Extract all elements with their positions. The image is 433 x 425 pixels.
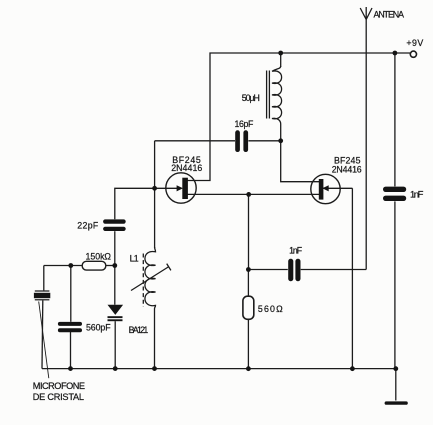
svg-text:560Ω: 560Ω (258, 304, 283, 314)
svg-text:MICROFONE: MICROFONE (33, 381, 85, 391)
svg-text:22pF: 22pF (77, 221, 99, 231)
svg-text:BA121: BA121 (129, 325, 149, 335)
svg-text:L1: L1 (130, 254, 139, 264)
svg-text:560pF: 560pF (86, 323, 111, 333)
svg-text:50µH: 50µH (242, 93, 260, 103)
svg-text:1nF: 1nF (289, 246, 303, 256)
svg-text:DE CRISTAL: DE CRISTAL (33, 392, 84, 402)
svg-text:2N4416: 2N4416 (171, 163, 202, 173)
svg-text:1nF: 1nF (410, 190, 424, 201)
svg-text:+9V: +9V (406, 38, 423, 48)
svg-text:2N4416: 2N4416 (332, 165, 362, 175)
svg-text:ANTENA: ANTENA (374, 9, 405, 19)
svg-text:150kΩ: 150kΩ (86, 251, 112, 261)
svg-text:16pF: 16pF (235, 119, 255, 129)
